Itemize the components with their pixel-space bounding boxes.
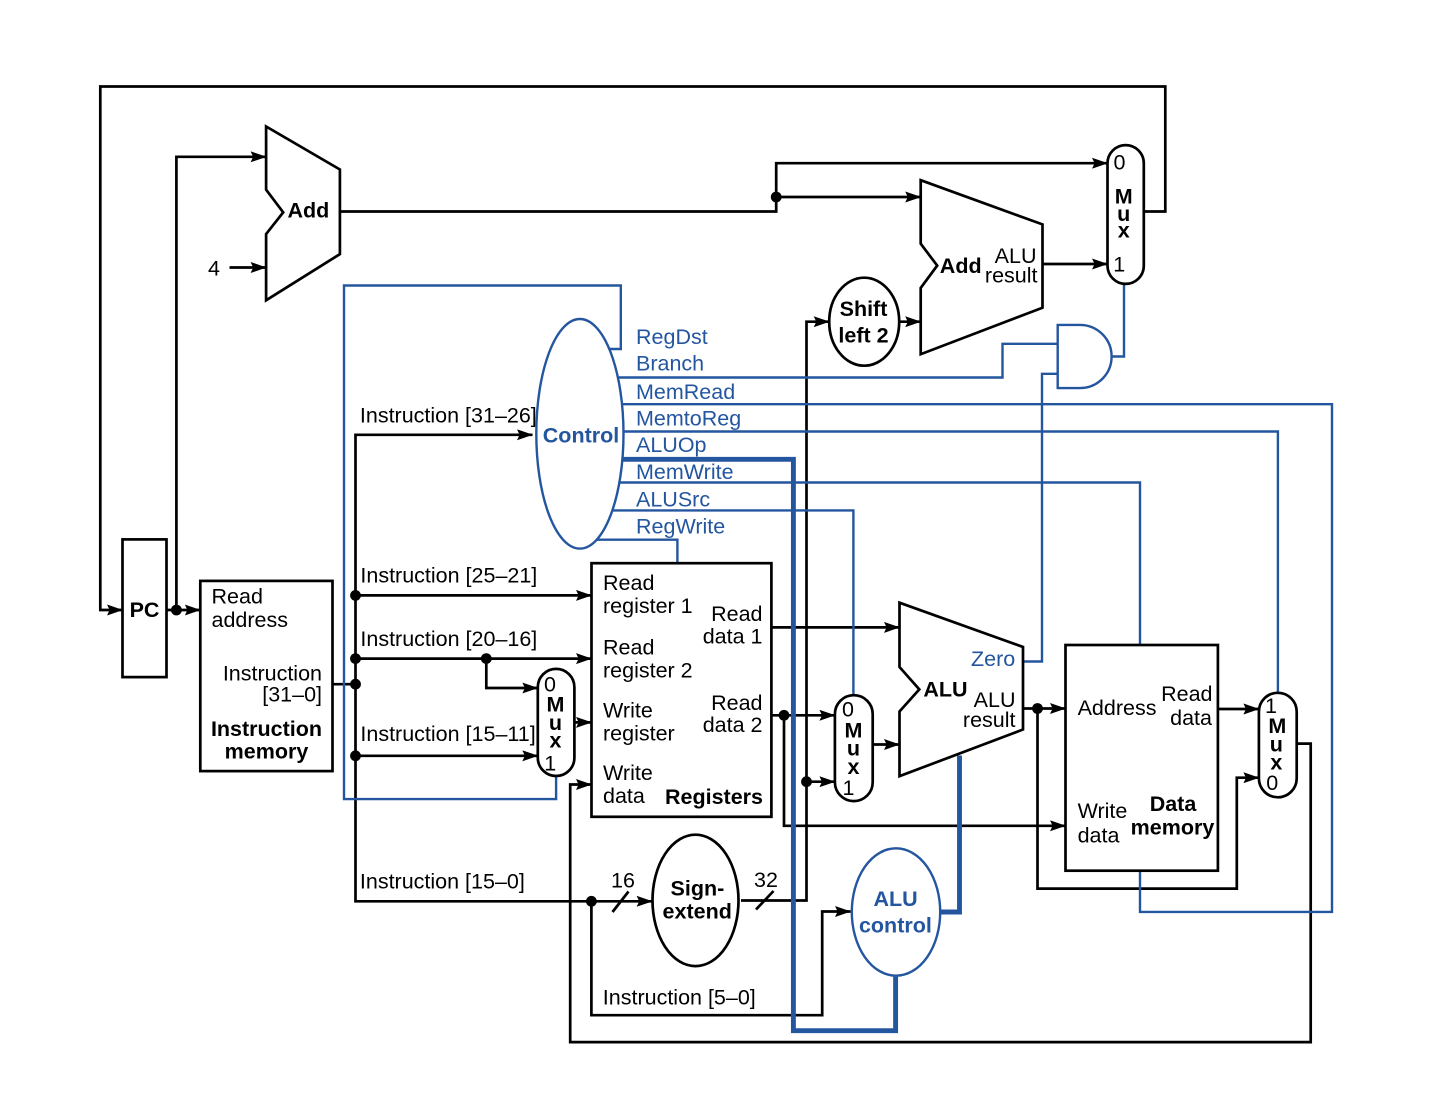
data memory box	[1066, 645, 1218, 871]
svg-text:MemWrite: MemWrite	[636, 460, 734, 484]
svg-text:ALU: ALU	[874, 887, 918, 911]
svg-text:Write: Write	[1078, 799, 1128, 823]
wire: ALU result to Data memory Address	[1023, 707, 1066, 710]
wire: ALU result branch down to MemtoReg mux input 0	[1038, 709, 1259, 889]
wire: MemtoReg mux output writeback to Registers Write data	[570, 744, 1310, 1043]
svg-text:ALUOp: ALUOp	[636, 433, 707, 457]
wire: Add (PC+4) result to branch mux input 0	[340, 163, 1108, 211]
svg-text:ALU: ALU	[923, 678, 967, 702]
ALU control ellipse	[852, 848, 940, 975]
wire: Sign-extend output up to Shift left 2 input	[741, 322, 829, 901]
svg-text:Instruction: Instruction	[211, 717, 322, 741]
wire: Branch control signal to AND gate top input	[580, 344, 1057, 378]
junction node: [20-16] split	[481, 653, 492, 664]
wire: RegWrite control signal to Registers top	[580, 540, 677, 564]
svg-text:result: result	[985, 264, 1038, 288]
svg-text:Write: Write	[603, 761, 653, 785]
svg-text:MemtoReg: MemtoReg	[636, 407, 741, 431]
svg-text:Read: Read	[711, 602, 762, 626]
wire: MemRead control signal to Data memory bottom	[580, 404, 1332, 912]
wire: Shift left 2 output to branch Add bottom input	[899, 320, 921, 323]
wire: Instruction memory output to instruction bus	[333, 683, 356, 686]
svg-text:Instruction [5–0]: Instruction [5–0]	[603, 986, 756, 1010]
svg-text:Control: Control	[543, 424, 619, 448]
slash: 16-bit bus mark	[613, 892, 629, 913]
mux: RegDst mux	[538, 669, 575, 776]
adder Add (branch target)	[921, 180, 1043, 354]
svg-text:ALUSrc: ALUSrc	[636, 488, 710, 512]
wire: ALUOp control signal (2 bits) to ALU control	[580, 459, 895, 1030]
wire: Instruction [20-16] to Read register 2	[356, 657, 592, 660]
svg-text:data: data	[1170, 706, 1212, 730]
svg-text:32: 32	[754, 868, 778, 892]
wire: ALU control output to ALU select input	[940, 756, 960, 913]
svg-text:register 1: register 1	[603, 594, 693, 618]
AND gate (branch and zero)	[1058, 325, 1112, 388]
wire: Instruction [20-16] branch down to RegDst mux input 0	[486, 659, 538, 688]
svg-text:Branch: Branch	[636, 352, 704, 376]
svg-text:PC: PC	[130, 598, 160, 622]
svg-text:data: data	[603, 784, 645, 808]
svg-text:MemRead: MemRead	[636, 380, 735, 404]
svg-text:0: 0	[1266, 771, 1278, 795]
junction node: instruction bus [25-21]	[350, 590, 361, 601]
wire: branch Add ALU result to mux input 1	[1043, 263, 1108, 266]
wire: Read data 2 branch down to Data memory Write data	[784, 715, 1066, 826]
svg-text:Registers: Registers	[665, 785, 763, 809]
wire: RegDst control signal to RegDst mux select	[344, 286, 621, 800]
wire: Data memory Read data to MemtoReg mux input 1	[1218, 708, 1259, 711]
wire: instruction bus down, Instruction [15-0] into Sign-extend	[356, 684, 653, 901]
wire: Instruction [25-21] to Read register 1	[356, 594, 592, 597]
svg-text:Sign-: Sign-	[671, 877, 725, 901]
svg-text:data 2: data 2	[703, 713, 763, 737]
slash: 32-bit bus mark	[756, 891, 774, 910]
junction node: read data 2 split	[779, 710, 790, 721]
svg-text:Data: Data	[1150, 792, 1198, 816]
svg-text:RegWrite: RegWrite	[636, 515, 725, 539]
PC register	[123, 539, 167, 677]
shift left 2 ellipse	[829, 278, 899, 366]
junction node: instruction bus output	[350, 679, 361, 690]
svg-text:control: control	[859, 914, 932, 938]
svg-text:register 2: register 2	[603, 659, 693, 683]
wire: Read data 2 to ALUSrc mux input 0	[771, 714, 835, 717]
control unit ellipse	[536, 319, 623, 549]
svg-text:1: 1	[544, 751, 556, 775]
svg-text:Address: Address	[1078, 696, 1157, 720]
wire: Instruction [5-0] to ALU control	[591, 901, 850, 1015]
registers box	[592, 563, 772, 817]
svg-text:[31–0]: [31–0]	[262, 683, 322, 707]
svg-text:Read: Read	[212, 585, 263, 609]
wire: PC+4 branch to second Add top input	[776, 196, 921, 199]
sign-extend ellipse	[653, 835, 739, 966]
junction node: instruction bus [15-11]	[350, 750, 361, 761]
svg-text:Read: Read	[603, 571, 654, 595]
svg-text:Instruction [15–0]: Instruction [15–0]	[360, 870, 525, 894]
svg-text:memory: memory	[225, 740, 309, 764]
wire: RegDst mux output to Write register	[574, 721, 591, 724]
svg-text:RegDst: RegDst	[636, 325, 708, 349]
wire: PC output to Instruction memory Read address	[168, 609, 201, 612]
svg-text:Shift: Shift	[840, 297, 888, 321]
wire: PC-branch mux output loop back to PC input	[100, 87, 1165, 611]
wire: instruction bus up, Instruction [31-26] into Control	[356, 435, 533, 684]
junction node: sign-extend output split	[801, 776, 812, 787]
mux: ALUSrc mux	[835, 695, 873, 801]
svg-text:1: 1	[843, 776, 855, 800]
svg-text:data: data	[1078, 823, 1120, 847]
svg-text:Write: Write	[603, 698, 653, 722]
junction node: instruction bus [20-16]	[350, 653, 361, 664]
wire: MemtoReg control signal to MemtoReg mux select	[580, 432, 1278, 693]
adder Add (PC+4)	[266, 127, 340, 301]
wire: AND gate output to branch mux select	[1112, 284, 1124, 357]
svg-text:x: x	[550, 729, 562, 753]
svg-text:address: address	[212, 608, 289, 632]
wire: ALUSrc control signal to ALUSrc mux select	[580, 510, 853, 697]
svg-text:register: register	[603, 721, 675, 745]
svg-text:Read: Read	[1161, 682, 1212, 706]
svg-text:Zero: Zero	[971, 647, 1015, 671]
svg-text:Read: Read	[711, 691, 762, 715]
svg-text:Instruction [15–11]: Instruction [15–11]	[360, 722, 535, 746]
wire: MemWrite control signal to Data memory top	[580, 483, 1140, 646]
svg-text:4: 4	[208, 257, 220, 281]
svg-text:0: 0	[1114, 151, 1126, 175]
svg-text:memory: memory	[1131, 815, 1215, 839]
svg-text:Instruction [20–16]: Instruction [20–16]	[360, 627, 537, 651]
mux: MemtoReg mux	[1259, 693, 1297, 798]
junction node: PC+4 branch	[771, 192, 782, 203]
svg-text:x: x	[1118, 219, 1130, 243]
svg-text:Instruction [31–26]: Instruction [31–26]	[360, 404, 537, 428]
svg-text:data 1: data 1	[703, 625, 763, 649]
svg-text:Instruction [25–21]: Instruction [25–21]	[360, 564, 537, 588]
wire: constant 4 into Add bottom input	[230, 266, 267, 269]
svg-text:extend: extend	[663, 900, 732, 924]
ALU	[900, 603, 1024, 777]
mux: branch mux (top right)	[1108, 145, 1144, 284]
junction node: ALU result split	[1032, 703, 1043, 714]
wire: PC output up to Add (PC+4) top input	[176, 157, 266, 610]
svg-text:Add: Add	[940, 254, 982, 278]
svg-text:1: 1	[1113, 253, 1125, 277]
junction node: instruction [15-0] split	[586, 896, 597, 907]
svg-text:result: result	[963, 708, 1016, 732]
instruction memory box	[200, 581, 332, 771]
junction node: PC output	[171, 605, 182, 616]
wire: ALUSrc mux output to ALU bottom input	[873, 743, 900, 746]
svg-text:left 2: left 2	[838, 324, 888, 348]
wire: sign-extended immediate branch to ALUSrc mux input 1	[807, 780, 835, 783]
svg-text:Read: Read	[603, 636, 654, 660]
wire: Read data 1 to ALU top input	[771, 626, 899, 629]
svg-text:Add: Add	[288, 199, 330, 223]
svg-text:16: 16	[611, 869, 635, 893]
wire: ALU Zero output to AND gate bottom input	[1023, 374, 1058, 662]
wire: Instruction [15-11] to RegDst mux input 1	[356, 754, 538, 757]
